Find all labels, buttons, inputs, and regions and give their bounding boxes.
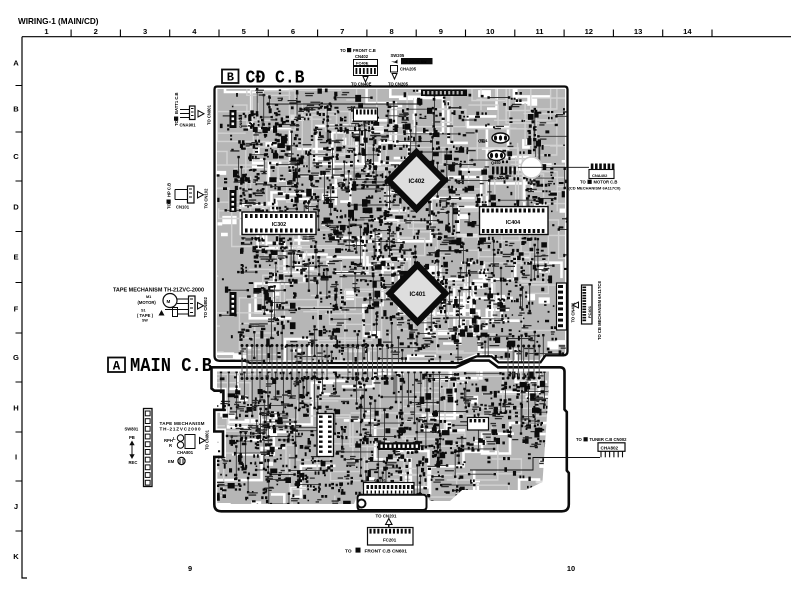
IC201 — [468, 418, 489, 431]
svg-text:TO CN802: TO CN802 — [203, 297, 208, 318]
svg-text:2: 2 — [94, 27, 98, 36]
CD board component wires — [220, 89, 590, 395]
svg-text:6: 6 — [291, 27, 295, 36]
transistor pack Q491 — [478, 133, 509, 143]
svg-text:M1: M1 — [146, 295, 151, 299]
svg-text:M: M — [167, 299, 171, 304]
board interconnect wires group B — [347, 344, 394, 380]
ruler column ticks — [71, 30, 712, 37]
svg-text:(CD MECHANISM 6A117C0): (CD MECHANISM 6A117C0) — [569, 186, 622, 191]
MAIN board white channels — [220, 377, 553, 511]
svg-text:TO CN40E: TO CN40E — [351, 81, 372, 86]
svg-text:TO CB MECHANISM 6A11TC8: TO CB MECHANISM 6A11TC8 — [597, 281, 602, 340]
MAIN board blank area — [212, 361, 569, 512]
svg-text:TAPE MECHANISM TH-21ZVC-2000: TAPE MECHANISM TH-21ZVC-2000 — [113, 288, 204, 294]
svg-text:(MOTOR): (MOTOR) — [138, 300, 157, 305]
svg-text:PB: PB — [129, 435, 135, 440]
svg-text:12: 12 — [585, 27, 593, 36]
connector pad row top — [421, 90, 467, 97]
svg-text:B: B — [13, 105, 19, 114]
svg-text:CE DOOR SW: CE DOOR SW — [403, 60, 427, 64]
MAIN board bottom slot cutout — [358, 495, 427, 510]
svg-text:TAPE MECHANISM: TAPE MECHANISM — [160, 421, 205, 426]
connector CNA902 — [378, 443, 420, 451]
svg-text:13: 13 — [634, 27, 642, 36]
CD board components speckle — [217, 89, 569, 366]
svg-text:14: 14 — [683, 27, 692, 36]
svg-text:CNA901: CNA901 — [180, 123, 197, 128]
svg-text:TUNER C.B CN002: TUNER C.B CN002 — [590, 437, 628, 442]
CD board copper fill — [215, 87, 568, 364]
callout SW801 PB/REC — [125, 409, 153, 487]
MAIN board components speckle — [216, 369, 550, 510]
connector CN802 — [230, 292, 237, 316]
callout CNA901 TO BATT C.B — [174, 92, 212, 127]
svg-text:R: R — [169, 443, 172, 448]
ruler row letters A-K — [13, 59, 19, 562]
connector CN102 — [230, 190, 237, 212]
op-chip IC402 — [389, 152, 445, 209]
svg-text:CN101: CN101 — [176, 205, 190, 210]
svg-text:J: J — [14, 502, 18, 511]
svg-text:FRONT C.B: FRONT C.B — [353, 48, 376, 53]
svg-text:CN40E: CN40E — [355, 124, 367, 128]
ruler row ticks — [16, 86, 23, 532]
svg-text:SW: SW — [142, 319, 148, 323]
connector CN201 — [364, 479, 415, 495]
MAIN board inner margin — [212, 361, 569, 512]
svg-text:EM: EM — [168, 459, 175, 464]
svg-text:9: 9 — [439, 27, 443, 36]
svg-text:E: E — [13, 253, 18, 262]
MAIN board copper traces — [185, 295, 571, 549]
svg-text:8: 8 — [389, 27, 393, 36]
svg-text:( TAPE ): ( TAPE ) — [137, 313, 154, 318]
svg-text:H: H — [13, 404, 18, 413]
IC404 — [480, 207, 549, 235]
callout TAPE MECHANISM TH-21ZVC2000 (lower) — [160, 421, 210, 465]
svg-text:A: A — [13, 59, 19, 68]
svg-text:TO: TO — [580, 180, 586, 185]
svg-text:FC401: FC401 — [587, 305, 592, 318]
connector TPCNA402 comb — [489, 167, 516, 181]
svg-text:C: C — [13, 152, 19, 161]
svg-text:9: 9 — [188, 564, 192, 573]
IC302 — [242, 212, 316, 235]
chip IC401 — [390, 265, 446, 322]
svg-text:REC: REC — [129, 460, 138, 465]
CD board inner margin — [215, 87, 568, 364]
svg-text:F: F — [14, 305, 19, 314]
svg-text:TO CN205: TO CN205 — [388, 81, 409, 86]
svg-text:WIRING-1 (MAIN/CD): WIRING-1 (MAIN/CD) — [18, 17, 99, 26]
svg-text:SW205: SW205 — [391, 53, 405, 58]
svg-text:TO CN801: TO CN801 — [205, 429, 210, 450]
svg-text:7: 7 — [340, 27, 344, 36]
svg-text:CĐ C.B: CĐ C.B — [246, 68, 305, 89]
CD board outline — [215, 87, 568, 364]
connector CN40E on CD board — [354, 108, 378, 128]
svg-text:11: 11 — [535, 27, 544, 36]
svg-text:IC404: IC404 — [506, 220, 520, 226]
svg-text:CHA801: CHA801 — [177, 450, 194, 455]
ruler column numbers 1-14 — [44, 27, 692, 36]
svg-text:TO CN201: TO CN201 — [376, 513, 397, 518]
svg-text:SW801: SW801 — [125, 427, 139, 432]
callout line to CHA802 — [470, 458, 600, 471]
board interconnect wires group A — [241, 344, 329, 380]
svg-text:IC302: IC302 — [272, 222, 286, 228]
callout line to CNA402 — [518, 166, 589, 168]
svg-text:CN402: CN402 — [355, 54, 369, 59]
CD board copper traces — [135, 8, 599, 393]
IC801 — [317, 414, 334, 457]
svg-text:TO CN102: TO CN102 — [204, 188, 209, 209]
svg-text:TO: TO — [340, 48, 346, 53]
svg-text:10: 10 — [567, 564, 575, 573]
svg-text:TH-21ZVC2000: TH-21ZVC2000 — [160, 427, 201, 432]
svg-text:TO: TO — [345, 548, 352, 554]
svg-text:TPCNA402: TPCNA402 — [489, 177, 508, 181]
callout TAPE MECHANISM TH-21ZVC-2000 — [113, 288, 208, 323]
svg-text:FC40E: FC40E — [356, 61, 369, 66]
MAIN board label bars — [216, 370, 548, 508]
svg-text:3: 3 — [143, 27, 147, 36]
svg-text:A: A — [113, 360, 121, 374]
board interconnect wires group C — [507, 345, 541, 380]
MAIN board copper fill — [217, 372, 549, 505]
callout TO FRONT C.B / FC40E — [340, 48, 409, 86]
board label B — [222, 70, 239, 85]
svg-text:BATT1 C.B: BATT1 C.B — [174, 92, 179, 114]
transistor pack Q492 — [488, 151, 505, 166]
top ruler line — [22, 36, 791, 38]
callout CHA802 TO TUNER C.B CN002 — [576, 437, 627, 457]
svg-text:K: K — [13, 552, 19, 561]
callout SW205 / CE DOOR SW / CHA205 — [391, 53, 433, 79]
svg-text:TO CN801: TO CN801 — [207, 104, 212, 125]
svg-text:L: L — [173, 436, 176, 441]
CD board white channels — [216, 90, 568, 361]
svg-text:10: 10 — [486, 27, 494, 36]
callout FC401 TO CB MECHANISM — [571, 281, 603, 340]
svg-text:FRONT C.B CN601: FRONT C.B CN601 — [365, 548, 408, 554]
svg-text:S1: S1 — [141, 309, 146, 313]
svg-text:FC201: FC201 — [383, 538, 397, 543]
svg-text:G: G — [13, 353, 19, 362]
svg-text:IC402: IC402 — [408, 179, 425, 185]
hole in CD board — [521, 157, 542, 178]
svg-text:IC401: IC401 — [409, 292, 426, 298]
callout CN101 TO HP C.B — [167, 183, 209, 210]
svg-text:D: D — [13, 203, 19, 212]
left ruler line — [22, 37, 27, 578]
CD board label bars — [223, 90, 572, 362]
board label A — [108, 358, 125, 374]
svg-text:CHA205: CHA205 — [400, 67, 417, 72]
callout CNA402 TO MOTOR C.B — [569, 164, 622, 191]
svg-text:CN201: CN201 — [374, 479, 386, 483]
svg-text:Q491: Q491 — [478, 138, 489, 143]
svg-text:CHA802: CHA802 — [601, 446, 619, 451]
connector CN401 comb — [557, 283, 567, 330]
callout TO CN201 / FC201 — [345, 513, 413, 554]
svg-text:CN801: CN801 — [239, 117, 243, 128]
svg-text:I: I — [15, 453, 17, 462]
svg-text:MAIN C.B: MAIN C.B — [130, 355, 212, 377]
svg-text:HP C.B: HP C.B — [167, 183, 172, 197]
wire bus R818 — [266, 102, 421, 105]
MAIN board component wires — [218, 369, 579, 535]
svg-text:CNA402: CNA402 — [592, 173, 608, 178]
svg-text:TO: TO — [576, 437, 582, 442]
connector CN801 — [230, 110, 244, 128]
svg-text:MOTOR C.B: MOTOR C.B — [594, 180, 618, 185]
MAIN board outline — [212, 361, 569, 512]
svg-text:B: B — [227, 71, 234, 85]
